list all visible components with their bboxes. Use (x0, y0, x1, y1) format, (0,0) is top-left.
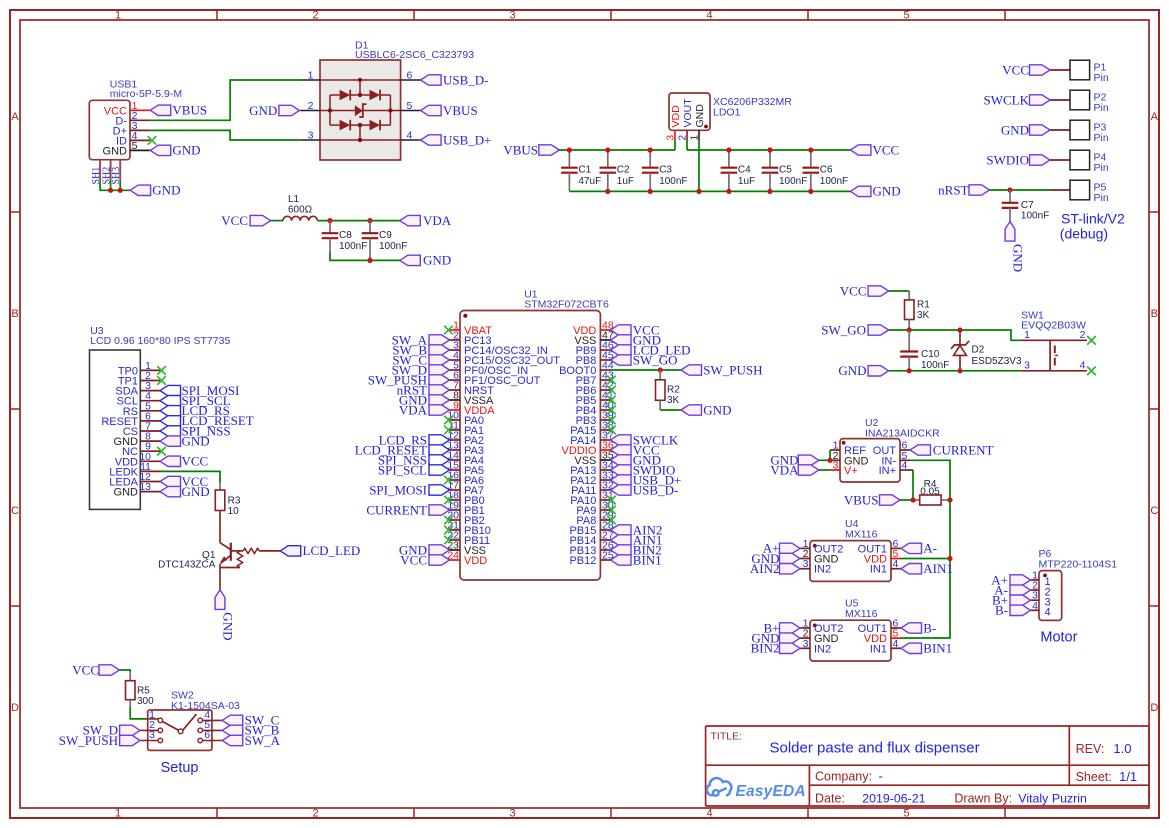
svg-text:100nF: 100nF (820, 176, 848, 187)
net flag VCC at R1 (840, 283, 889, 298)
net flag VDA at U1 pin 9 (399, 402, 450, 417)
wire VCC to R5 (120, 670, 131, 672)
svg-text:GND: GND (182, 484, 210, 499)
svg-text:D: D (1150, 702, 1158, 714)
svg-text:GND: GND (103, 145, 128, 157)
svg-text:1uF: 1uF (617, 176, 634, 187)
wire C8/C9 ground rail (330, 252, 400, 260)
svg-text:3: 3 (1024, 360, 1030, 372)
svg-text:4: 4 (1080, 360, 1086, 372)
svg-text:6: 6 (407, 70, 413, 82)
junction C9/VDA (367, 218, 372, 223)
svg-text:CURRENT: CURRENT (366, 502, 427, 517)
regulator LDO1 XC6206P332MR (666, 93, 793, 141)
ground flag GND at C8 C9 (400, 253, 451, 268)
pin header P5 (1050, 180, 1109, 204)
capacitor C6 100nF (803, 150, 849, 191)
wire LDO VDD pin to rail (674, 140, 676, 150)
svg-text:1: 1 (1024, 329, 1030, 341)
svg-text:13: 13 (139, 481, 151, 493)
ground flag GND at U1 pin 35 (611, 452, 661, 467)
net flag USB_D+ at U1 pin 33 (611, 472, 682, 487)
net flag VBUS at LDO input rail (503, 142, 559, 157)
svg-text:10: 10 (228, 506, 240, 517)
svg-text:Vitaly Puzrin: Vitaly Puzrin (1018, 791, 1087, 805)
svg-text:100nF: 100nF (659, 176, 687, 187)
diode D2 ESD5Z3V3 (951, 330, 1022, 371)
junction nRST/C7 (1007, 187, 1012, 192)
current sense amplifier U2 INA213AIDCKR (830, 417, 940, 482)
svg-text:GND: GND (221, 612, 236, 640)
no-connect U1 pin 18 (444, 496, 453, 505)
svg-text:Pin: Pin (1094, 102, 1109, 114)
svg-text:100nF: 100nF (1021, 211, 1049, 222)
ground flag GND at LDO (850, 184, 900, 199)
svg-text:TITLE:: TITLE: (711, 731, 743, 743)
resistor R3 10 (215, 483, 241, 517)
svg-text:C7: C7 (1021, 200, 1034, 211)
svg-text:Setup: Setup (161, 760, 199, 776)
svg-text:SW_PUSH: SW_PUSH (59, 733, 118, 748)
svg-text:1: 1 (115, 808, 121, 820)
svg-text:IN2: IN2 (814, 643, 831, 655)
svg-text:LDO1: LDO1 (713, 107, 741, 119)
no-connect U3 pin 9 (157, 447, 166, 456)
ground flag GND at U3 pin 8 (160, 433, 210, 448)
ground flag GND at P3 (1001, 122, 1050, 137)
svg-text:Motor: Motor (1040, 630, 1077, 646)
svg-text:IN+: IN+ (879, 465, 896, 477)
net flag BIN2 at U1 pin 26 (611, 542, 662, 557)
svg-text:4: 4 (706, 808, 712, 820)
wire U2 IN+ to R4 (912, 470, 914, 500)
display module U3 LCD 0.96 160*80 IPS ST7735 body (90, 325, 231, 509)
net flag SPI_SCL at U3 pin 4 (160, 393, 231, 408)
pin header P2 (1050, 90, 1109, 114)
svg-text:D: D (11, 702, 19, 714)
svg-text:VDD: VDD (573, 325, 596, 337)
junction cap ground rail x=650.2 (648, 189, 653, 194)
svg-text:GND: GND (152, 183, 180, 198)
net flag SW_C at U1 pin 4 (392, 352, 449, 367)
svg-text:LCD 0.96 160*80 IPS ST7735: LCD 0.96 160*80 IPS ST7735 (90, 335, 230, 347)
svg-text:CURRENT: CURRENT (933, 442, 994, 457)
svg-text:Drawn By:: Drawn By: (954, 791, 1012, 805)
ground flag GND at U1 pin 8 (399, 392, 450, 407)
svg-text:ST-link/V2: ST-link/V2 (1061, 211, 1125, 227)
wire nRST to P5 (990, 189, 1051, 191)
junction cap top rail x=607.8 (605, 147, 610, 152)
svg-text:5: 5 (407, 100, 413, 112)
svg-text:600Ω: 600Ω (288, 204, 313, 215)
svg-text:2019-06-21: 2019-06-21 (862, 791, 925, 805)
ground flag GND at R2 (681, 402, 731, 417)
junction cap ground rail x=770 (767, 189, 772, 194)
no-connect U1 pin 31 (607, 496, 616, 505)
inductor L1 600ohm (283, 194, 317, 221)
svg-text:C6: C6 (820, 165, 833, 176)
wire U3 LEDK to R3 (160, 471, 220, 482)
svg-text:5: 5 (903, 10, 909, 22)
wire SW_GO to SW1 pin 1 (889, 330, 1021, 340)
junction cap ground rail x=810.8 (808, 189, 813, 194)
junction cap ground rail x=728.9 (726, 189, 731, 194)
no-connect U1 pin 40 (607, 406, 616, 415)
net flag VCC at L1 (221, 213, 270, 228)
wire R4 to U4/U5 VDD (901, 500, 950, 638)
wire R2 to GND (660, 409, 681, 411)
net flag LCD_LED at U1 pin 46 (611, 342, 691, 357)
no-connect U1 pin 38 (607, 426, 616, 435)
svg-text:B-: B- (923, 620, 936, 635)
svg-text:VDD: VDD (464, 555, 487, 567)
net flag SW_PUSH at SW2 pin 3 (59, 733, 140, 748)
svg-text:VDD: VDD (670, 105, 682, 128)
svg-text:3: 3 (509, 808, 515, 820)
svg-text:USB_D+: USB_D+ (443, 132, 492, 147)
junction C9/GND rail (367, 258, 372, 263)
net flag A- at P6 pin 2 (994, 582, 1030, 597)
net flag SW_PUSH at BOOT0 (681, 362, 763, 377)
net flag USB_D- at U1 pin 32 (611, 482, 679, 497)
svg-text:A-: A- (923, 541, 937, 556)
junction SH2/GND (108, 188, 113, 193)
net flag USB_D+ at D1 pin 4 (421, 132, 492, 147)
net flag LCD_LED at Q1 base (280, 543, 360, 558)
net flag VBUS at D1 pin 5 (421, 103, 478, 118)
pin header P3 (1050, 120, 1109, 144)
svg-text:VCC: VCC (221, 213, 248, 228)
net flag VCC at U1 pin 36 (611, 442, 660, 457)
switch SW2 K1-1504SA-03 (140, 690, 240, 751)
svg-text:VCC: VCC (72, 662, 99, 677)
svg-text:Pin: Pin (1094, 132, 1109, 144)
net flag A- at U4 (901, 541, 937, 556)
net flag B+ at U5 pin 1 (763, 620, 800, 635)
wire GND rail to SW1 pin 3 (889, 370, 1021, 372)
svg-text:nRST: nRST (938, 182, 968, 197)
net flag SW_C at SW2 pin 4 (222, 713, 279, 728)
svg-text:AIN2: AIN2 (750, 561, 780, 576)
svg-text:3K: 3K (667, 395, 680, 406)
net flag SW_A at U1 pin 2 (392, 332, 450, 347)
svg-text:R3: R3 (228, 496, 241, 507)
pin header P4 (1050, 150, 1109, 174)
wire GND flag to U2 pin 2 (819, 459, 830, 461)
net flag BIN1 at U5 (901, 641, 952, 656)
junction cap top rail x=650.2 (648, 147, 653, 152)
svg-text:VCC: VCC (400, 552, 427, 567)
capacitor C7 100nF (1002, 190, 1050, 222)
junction cap ground rail x=699 (696, 189, 701, 194)
svg-text:Pin: Pin (1094, 162, 1109, 174)
wire VDA to U2 V+ (819, 469, 830, 471)
net flag VDA at U2 V+ (770, 462, 818, 477)
no-connect SW1 pin 4 (1087, 367, 1096, 376)
svg-text:C8: C8 (339, 230, 352, 241)
svg-text:BIN1: BIN1 (923, 641, 952, 656)
net flag B- at P6 pin 4 (995, 603, 1031, 618)
no-connect U3 pin 1 (157, 366, 166, 375)
junction R4 right (947, 497, 952, 502)
svg-text:R5: R5 (137, 686, 150, 697)
net flag CURRENT at U2 OUT (910, 442, 994, 457)
net flag SWCLK at U1 pin 37 (611, 432, 679, 447)
svg-text:4: 4 (706, 10, 712, 22)
ground flag GND at U4 pin 2 (751, 551, 800, 566)
net flag VCC at U1 pin 48 (611, 322, 660, 337)
svg-text:2: 2 (312, 10, 318, 22)
svg-text:A: A (11, 111, 19, 123)
svg-text:IN1: IN1 (870, 564, 887, 576)
svg-text:GND: GND (703, 402, 731, 417)
capacitor C5 100nF (762, 150, 808, 191)
svg-text:100nF: 100nF (779, 176, 807, 187)
svg-text:4: 4 (1045, 607, 1051, 619)
net flag SPI_NSS at U3 pin 7 (160, 423, 231, 438)
resistor R5 300 (126, 672, 155, 707)
capacitor C9 100nF (362, 221, 408, 261)
svg-text:2: 2 (312, 808, 318, 820)
svg-text:(debug): (debug) (1060, 226, 1108, 242)
svg-text:GND: GND (182, 433, 210, 448)
svg-text:DTC143ZCA: DTC143ZCA (158, 560, 216, 571)
svg-text:C4: C4 (738, 165, 751, 176)
net flag VCC at LDO output (850, 142, 899, 157)
svg-text:C1: C1 (578, 165, 591, 176)
svg-text:VBUS: VBUS (443, 103, 478, 118)
svg-text:B: B (1151, 308, 1158, 320)
svg-text:-: - (879, 769, 883, 784)
capacitor C10 100nF (900, 330, 949, 371)
wire LDO VOUT pin to rail (686, 140, 688, 150)
svg-text:VCC: VCC (1002, 62, 1029, 77)
svg-text:1: 1 (115, 10, 121, 22)
ground flag GND at U5 pin 2 (751, 630, 800, 645)
svg-text:4: 4 (407, 130, 413, 142)
no-connect U1 pin 1 (444, 326, 453, 335)
ground flag GND at U1 pin 23 (399, 542, 450, 557)
wire R3 to Q1 collector (219, 511, 221, 543)
pin header P1 (1050, 60, 1109, 84)
svg-text:24: 24 (447, 550, 459, 562)
svg-text:SW_GO: SW_GO (821, 322, 866, 337)
net flag LCD_RESET at U1 pin 13 (355, 442, 450, 457)
junction cap top rail x=569.4 (567, 147, 572, 152)
no-connect U1 pin 42 (607, 386, 616, 395)
svg-text:100nF: 100nF (379, 241, 407, 252)
no-connect U1 pin 20 (444, 516, 453, 525)
svg-text:VBUS: VBUS (503, 142, 538, 157)
net flag SPI_MOSI at U3 pin 3 (160, 383, 239, 398)
capacitor C2 1uF (600, 150, 635, 191)
svg-text:VCC: VCC (873, 142, 900, 157)
junction L1/C8 (327, 218, 332, 223)
ground flag GND at USB1 shield (130, 183, 180, 198)
svg-text:Sheet:: Sheet: (1076, 770, 1112, 784)
net flag SWDIO at P4 (986, 152, 1050, 167)
svg-text:GND: GND (423, 253, 451, 268)
svg-text:VBUS: VBUS (172, 103, 207, 118)
net flag SW_GO (821, 322, 888, 337)
svg-text:INA213AIDCKR: INA213AIDCKR (865, 427, 940, 439)
net flag nRST at P5 (938, 182, 989, 197)
svg-text:SPI_SCL: SPI_SCL (378, 462, 427, 477)
wire U2 IN- to R4 (910, 460, 950, 500)
no-connect U1 pin 21 (444, 526, 453, 535)
wire USB1 shield pins to GND (100, 180, 130, 190)
svg-text:48: 48 (602, 320, 614, 332)
wire VBUS to R4 (900, 499, 913, 501)
ground flag GND at U2 (770, 453, 818, 468)
svg-text:EVQQ2B03W: EVQQ2B03W (1021, 320, 1086, 332)
net flag AIN2 at U4 pin 3 (750, 561, 800, 576)
net flag LCD_RS at U1 pin 12 (379, 432, 450, 447)
svg-text:5: 5 (903, 808, 909, 820)
wire LDO ground rail (569, 190, 850, 192)
junction U4 VDD (947, 556, 952, 561)
net flag AIN1 at U1 pin 27 (611, 532, 663, 547)
wire VCC to L1 (271, 220, 283, 222)
net flag VCC at U3 pin 10 (160, 454, 208, 469)
net flag nRST at U1 pin 7 (397, 382, 450, 397)
svg-text:VDA: VDA (399, 402, 428, 417)
svg-text:C5: C5 (779, 165, 792, 176)
motor driver U5 MX116 (800, 598, 901, 661)
svg-text:EasyEDA: EasyEDA (736, 783, 806, 800)
net flag AIN2 at U1 pin 28 (611, 522, 663, 537)
svg-text:3: 3 (509, 10, 515, 22)
wire LDO GND pin to ground rail (698, 140, 700, 191)
wire USB_D- from USB1 D- to D1 pin 1 (150, 80, 300, 120)
net flag A+ at U4 pin 1 (763, 541, 800, 556)
net flag VCC at P1 (1002, 62, 1050, 77)
junction R1/SW_GO (907, 327, 912, 332)
no-connect SW1 pin 2 (1087, 336, 1096, 345)
junction D2/GND (957, 368, 962, 373)
svg-text:1.0: 1.0 (1113, 741, 1131, 756)
svg-text:GND: GND (172, 143, 200, 158)
no-connect on USB1 pin 4 ID (148, 136, 157, 145)
svg-text:SWDIO: SWDIO (986, 152, 1029, 167)
svg-text:VDA: VDA (423, 213, 452, 228)
ground flag GND at C10 (838, 363, 888, 378)
svg-text:GND: GND (114, 487, 139, 499)
junction C10/GND (907, 368, 912, 373)
net flag SW_D at U1 pin 5 (392, 362, 450, 377)
svg-text:GND: GND (1001, 122, 1029, 137)
net flag B+ at P6 pin 3 (992, 593, 1031, 608)
svg-text:SWCLK: SWCLK (984, 92, 1030, 107)
net flag BIN1 at U1 pin 25 (611, 552, 662, 567)
no-connect U1 pin 43 (607, 376, 616, 385)
svg-text:VOUT: VOUT (682, 98, 694, 128)
svg-text:C9: C9 (379, 230, 392, 241)
switch SW1 EVQQ2B03W (1020, 309, 1087, 371)
junction U2 REF/GND (827, 458, 832, 463)
svg-text:3K: 3K (917, 310, 930, 321)
net flag SWCLK at P2 (984, 92, 1051, 107)
svg-text:C: C (11, 505, 19, 517)
no-connect U1 pin 11 (444, 426, 453, 435)
svg-text:1: 1 (308, 70, 314, 82)
svg-text:GND: GND (694, 104, 706, 128)
net flag CURRENT at U1 pin 19 (366, 502, 449, 517)
svg-text:SW_PUSH: SW_PUSH (703, 362, 762, 377)
motor driver U4 MX116 (800, 518, 901, 581)
net flag VCC at U1 pin 24 (400, 552, 449, 567)
svg-text:GND: GND (249, 103, 277, 118)
title block (706, 726, 1149, 806)
net flag SW_B at SW2 pin 5 (222, 723, 279, 738)
svg-text:B: B (11, 308, 18, 320)
no-connect U1 pin 22 (444, 536, 453, 545)
ground flag GND at USB1 pin 5 (150, 143, 200, 158)
diode array D1 USBLC6-2SC6_C323793 (300, 40, 474, 161)
svg-text:Solder paste and flux dispense: Solder paste and flux dispenser (770, 739, 980, 756)
text ST-link/V2 (debug) (1060, 211, 1125, 242)
svg-text:3: 3 (308, 130, 314, 142)
microcontroller U1 STM32F072CBT6 body (447, 289, 614, 581)
capacitor C4 1uF (721, 150, 756, 191)
wire USB_D+ from USB1 D+ to D1 pin 3 (150, 130, 300, 140)
svg-text:C2: C2 (617, 165, 630, 176)
svg-text:R1: R1 (917, 300, 930, 311)
net flag A+ at P6 pin 1 (991, 572, 1030, 587)
net flag SPI_SCL at U1 pin 15 (378, 462, 450, 477)
wire LDO VOUT to VCC rail (687, 149, 850, 151)
capacitor C1 47uF (561, 150, 601, 191)
junction SH3/GND (118, 188, 123, 193)
junction R4 left (910, 497, 915, 502)
no-connect U1 pin 41 (607, 396, 616, 405)
junction cap top rail x=728.9 (726, 147, 731, 152)
svg-text:ESD5Z3V3: ESD5Z3V3 (972, 356, 1022, 367)
svg-text:Pin: Pin (1094, 192, 1109, 204)
no-connect U1 pin 16 (444, 476, 453, 485)
svg-text:micro-5P-5.9-M: micro-5P-5.9-M (110, 88, 182, 100)
svg-text:C: C (1150, 505, 1158, 517)
wire VBUS rail to LDO VDD (559, 149, 675, 151)
junction cap top rail x=770 (767, 147, 772, 152)
svg-text:2: 2 (308, 100, 314, 112)
svg-text:4: 4 (1032, 600, 1038, 612)
net flag SW_B at U1 pin 3 (392, 342, 449, 357)
svg-text:BIN2: BIN2 (751, 641, 780, 656)
svg-text:47uF: 47uF (578, 176, 601, 187)
net flag VDA (400, 213, 452, 228)
wire L1 to VDA (318, 220, 400, 222)
resistor R4 0.05 shunt (913, 479, 950, 505)
svg-text:100nF: 100nF (339, 241, 367, 252)
junction cap top rail x=810.8 (808, 147, 813, 152)
net flag LCD_RS at U3 pin 5 (160, 403, 230, 418)
svg-text:GND: GND (873, 184, 901, 199)
svg-text:REV:: REV: (1076, 742, 1105, 756)
svg-text:SW_A: SW_A (245, 733, 281, 748)
net flag SPI_NSS at U1 pin 14 (378, 452, 450, 467)
ground flag GND at Q1 emitter (215, 590, 236, 641)
svg-text:VCC: VCC (840, 283, 867, 298)
ground flag GND at U1 pin 47 (611, 332, 661, 347)
junction cap ground rail x=607.8 (605, 189, 610, 194)
ground flag GND at D1 pin 2 (249, 103, 299, 118)
svg-text:MX116: MX116 (845, 608, 878, 620)
wire R5 to SW2 pin 1 (130, 707, 148, 719)
transistor Q1 DTC143ZCA (158, 543, 280, 590)
svg-text:1/1: 1/1 (1119, 769, 1137, 784)
svg-text:D2: D2 (972, 345, 985, 356)
